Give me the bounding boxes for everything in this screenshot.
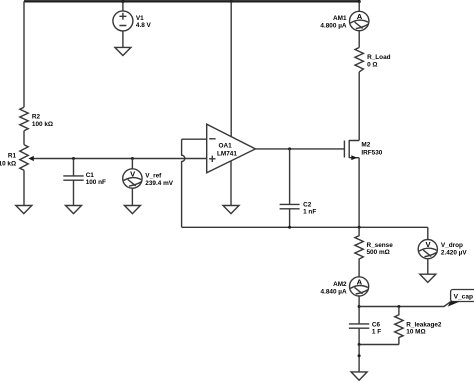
wire to V_cap flag — [359, 302, 451, 307]
svg-text:2.420 µV: 2.420 µV — [441, 249, 467, 256]
svg-text:AM2: AM2 — [333, 281, 347, 288]
node C2 bottom junction — [288, 226, 291, 229]
svg-text:V_ref: V_ref — [145, 172, 162, 179]
svg-text:AM1: AM1 — [333, 15, 347, 22]
wire R1 to ground — [23, 170, 25, 205]
svg-text:4.840 µA: 4.840 µA — [321, 288, 347, 295]
svg-text:LM741: LM741 — [217, 151, 237, 158]
node op-amp supply junction — [230, 0, 233, 3]
svg-text:C6: C6 — [372, 321, 381, 328]
wire C6 bottom to R_leakage2 bottom — [359, 344, 399, 346]
svg-text:R_Load: R_Load — [367, 54, 391, 61]
svg-text:R1: R1 — [8, 152, 17, 159]
wire left vertical — [23, 1, 25, 107]
svg-text:IRF530: IRF530 — [361, 149, 382, 156]
svg-text:100 kΩ: 100 kΩ — [32, 121, 53, 128]
svg-text:A: A — [357, 12, 363, 21]
op-amp OA1 — [207, 124, 256, 173]
resistor R_sense — [355, 227, 363, 277]
flag V_cap — [451, 290, 474, 302]
wire op-amp V+ — [230, 2, 232, 137]
resistor R_Load — [355, 48, 363, 72]
node C2 top junction — [288, 147, 291, 150]
svg-text:1 nF: 1 nF — [303, 209, 316, 216]
wire M2 source down — [358, 158, 360, 228]
ground (V_drop) — [420, 274, 436, 282]
node lower junction — [358, 354, 361, 357]
voltmeter V_drop — [427, 227, 429, 239]
ammeter AM2 — [350, 277, 369, 296]
svg-text:R_sense: R_sense — [367, 242, 394, 249]
node R_leakage2 top junction — [397, 305, 400, 308]
svg-text:R_leakage2: R_leakage2 — [406, 321, 442, 328]
wire top rail — [24, 0, 359, 2]
potentiometer R1 — [20, 145, 28, 171]
transistor M2 — [343, 141, 345, 158]
ground (op-amp) — [223, 206, 239, 214]
svg-text:V_cap: V_cap — [454, 294, 473, 301]
node C6 bottom junction — [358, 343, 361, 346]
svg-text:1 F: 1 F — [372, 328, 381, 335]
node C1 junction — [72, 157, 75, 160]
wire R2 to R1 — [23, 131, 25, 145]
svg-text:4.800 µA: 4.800 µA — [320, 22, 346, 29]
resistor R_leakage2 — [395, 307, 403, 345]
wire op-amp output — [255, 148, 344, 150]
ground (R1) — [16, 206, 32, 214]
node AM2 bottom junction — [358, 305, 361, 308]
ground (V_ref) — [124, 206, 140, 214]
wire bottom rail — [182, 226, 428, 228]
ground (V1) — [115, 47, 131, 55]
node V1 top junction — [121, 0, 124, 3]
svg-text:C2: C2 — [303, 202, 312, 209]
svg-text:10 kΩ: 10 kΩ — [0, 160, 16, 167]
svg-text:4.8 V: 4.8 V — [136, 22, 152, 29]
svg-text:10 MΩ: 10 MΩ — [406, 328, 425, 335]
resistor R2 — [20, 107, 28, 131]
svg-text:V1: V1 — [136, 15, 144, 22]
node AM1 top junction — [358, 0, 361, 3]
svg-text:M2: M2 — [361, 142, 370, 149]
svg-text:OA1: OA1 — [219, 143, 233, 150]
svg-text:0 Ω: 0 Ω — [367, 62, 377, 69]
capacitor C6 — [349, 324, 369, 345]
wire feedback with hop — [182, 139, 185, 227]
wire wiper rail — [40, 158, 207, 160]
capacitor C2 — [280, 149, 300, 227]
voltmeter V_ref — [131, 159, 133, 169]
svg-text:A: A — [357, 278, 363, 287]
ground (bottom) — [351, 372, 367, 380]
svg-text:500 mΩ: 500 mΩ — [367, 249, 390, 256]
svg-text:100 nF: 100 nF — [86, 179, 106, 186]
node V_ref junction — [131, 157, 134, 160]
wire op-amp V- to ground — [230, 161, 232, 206]
wire inverting input — [182, 138, 207, 140]
node sense junction — [358, 226, 361, 229]
wire R_Load to M2 drain — [358, 72, 360, 141]
svg-text:R2: R2 — [32, 114, 41, 121]
svg-text:V_drop: V_drop — [441, 242, 463, 249]
ground (C1) — [66, 206, 82, 214]
voltage source V1 — [122, 2, 124, 11]
ammeter AM1 — [358, 2, 360, 12]
wire to bottom ground — [358, 345, 360, 372]
capacitor C1 — [63, 159, 83, 206]
svg-text:239.4 mV: 239.4 mV — [145, 180, 173, 187]
